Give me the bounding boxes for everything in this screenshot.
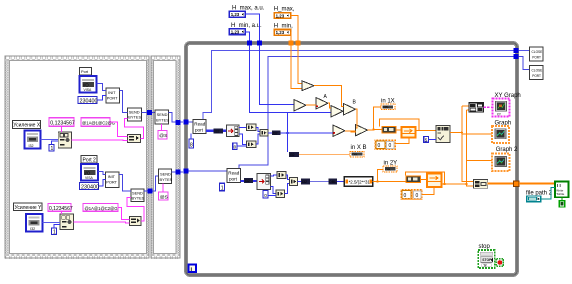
svg-text:8: 8 — [190, 143, 193, 149]
svg-text:1,23: 1,23 — [276, 13, 285, 18]
svg-text:Усиление Y: Усиление Y — [15, 205, 43, 211]
svg-text:A: A — [324, 94, 328, 100]
svg-text:@1A@1@C2@G: @1A@1@C2@G — [85, 206, 118, 211]
svg-text:1,23: 1,23 — [231, 12, 240, 17]
svg-text:1: 1 — [221, 186, 224, 192]
svg-text:Усиление X: Усиление X — [13, 123, 41, 129]
svg-text:230400: 230400 — [80, 98, 98, 104]
svg-text:I32: I32 — [29, 144, 34, 148]
svg-text:VISA: VISA — [84, 88, 92, 92]
svg-text:0: 0 — [416, 193, 419, 199]
svg-text:TF: TF — [483, 263, 487, 267]
svg-text:0,1234567: 0,1234567 — [49, 206, 73, 212]
svg-text:1,23: 1,23 — [231, 30, 240, 35]
svg-text:@S: @S — [159, 133, 167, 139]
svg-text:5: 5 — [425, 137, 428, 142]
svg-text:SEND: SEND — [157, 112, 168, 117]
svg-text:I32: I32 — [290, 153, 295, 157]
svg-text:I32: I32 — [302, 180, 307, 184]
svg-text:Port 2: Port 2 — [83, 157, 97, 163]
svg-text:DBL: DBL — [386, 167, 392, 171]
svg-text:BYTES: BYTES — [132, 196, 145, 201]
svg-text:*2.5/(2**31: *2.5/(2**31 — [349, 180, 371, 185]
svg-text:Graph 2: Graph 2 — [496, 147, 518, 153]
svg-text:0,1234567: 0,1234567 — [50, 121, 75, 127]
svg-text:B: B — [353, 100, 357, 106]
svg-text:ToFile: ToFile — [556, 192, 564, 196]
svg-text:I/O: I/O — [83, 82, 89, 87]
svg-text:BYTES: BYTES — [160, 177, 173, 182]
svg-text:I I: I I — [557, 183, 561, 188]
svg-text:SEND: SEND — [160, 172, 171, 177]
svg-text:VISA: VISA — [85, 176, 93, 180]
svg-text:0: 0 — [378, 143, 381, 149]
svg-text:I/O: I/O — [85, 170, 91, 175]
svg-text:DBL: DBL — [383, 105, 389, 109]
svg-text:1: 1 — [53, 230, 56, 236]
svg-text:0: 0 — [389, 143, 392, 149]
svg-text:in X B: in X B — [351, 145, 367, 151]
svg-text:INIT: INIT — [108, 90, 116, 95]
svg-text:H_max,: H_max, — [274, 7, 295, 13]
svg-text:0: 0 — [234, 144, 237, 149]
svg-text:DBL: DBL — [329, 180, 336, 184]
svg-text:0: 0 — [264, 193, 267, 198]
svg-text:BYTES: BYTES — [156, 117, 169, 122]
svg-text:I32: I32 — [245, 179, 250, 183]
svg-text:port: port — [195, 128, 204, 133]
svg-text:DBL: DBL — [352, 153, 358, 157]
svg-text:0: 0 — [404, 193, 407, 199]
svg-text:I32: I32 — [30, 227, 35, 231]
svg-text:230400: 230400 — [81, 184, 99, 190]
svg-text:PORT: PORT — [532, 74, 541, 78]
svg-text:Port: Port — [81, 69, 89, 74]
svg-text:CLOSE: CLOSE — [532, 50, 543, 54]
svg-text:CLOSE: CLOSE — [532, 68, 543, 72]
svg-text:PORT: PORT — [532, 56, 541, 60]
svg-text:Read: Read — [194, 122, 205, 127]
svg-text:@S: @S — [160, 194, 168, 200]
svg-text:I32: I32 — [273, 131, 278, 135]
svg-text:I32: I32 — [215, 130, 220, 134]
svg-text:1: 1 — [51, 146, 54, 152]
svg-text:@1A@1@C2@G: @1A@1@C2@G — [82, 120, 115, 125]
svg-text:1,23: 1,23 — [276, 30, 285, 35]
svg-text:stop: stop — [479, 244, 491, 250]
svg-text:STOP: STOP — [482, 258, 492, 262]
svg-text:PORT: PORT — [107, 96, 118, 101]
svg-text:PORT: PORT — [106, 180, 117, 185]
svg-text:port: port — [229, 177, 238, 182]
svg-text:INIT: INIT — [108, 174, 116, 179]
svg-text:Read: Read — [228, 171, 239, 176]
svg-text:BYTES: BYTES — [128, 115, 141, 120]
